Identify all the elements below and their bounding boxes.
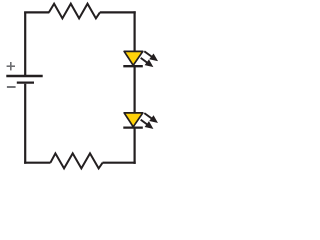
LED D1 light arrow upper [144, 51, 157, 60]
LED D1 light arrow lower [141, 58, 153, 67]
LED D2 light arrow lower [141, 120, 153, 129]
LED D2 light arrow upper [144, 113, 157, 122]
wire: left vertical from top-left corner to battery positive plate [24, 12, 26, 75]
wire: left vertical from battery negative plate to bottom-left corner [24, 84, 26, 164]
battery B1 plus label [7, 62, 15, 70]
wire: right vertical between LED D1 and LED D2 [134, 66, 136, 113]
LED D2 cathode bar [123, 126, 143, 128]
resistor R2 (bottom) [50, 153, 102, 168]
wire: top horizontal right segment from resistor R1 to top-right corner [100, 11, 136, 13]
wire: bottom horizontal right segment from resistor R2 to bottom-right corner [103, 162, 136, 164]
LED D1 cathode bar [123, 65, 143, 67]
battery B1 positive plate (long) [6, 75, 42, 77]
LED D1 triangle (anode, yellow) [124, 51, 143, 65]
resistor R1 (top) [49, 4, 100, 19]
wire: top horizontal left segment from corner to resistor R1 [24, 11, 49, 13]
battery B1 minus label [7, 86, 16, 88]
LED D2 triangle (anode, yellow) [124, 113, 143, 127]
wire: right vertical from LED D2 to bottom-right corner [134, 128, 136, 164]
wire: right vertical from top-right corner to LED D1 [134, 11, 136, 51]
wire: bottom horizontal left segment from corner to resistor R2 [24, 162, 50, 164]
battery B1 negative plate (short) [17, 81, 34, 83]
